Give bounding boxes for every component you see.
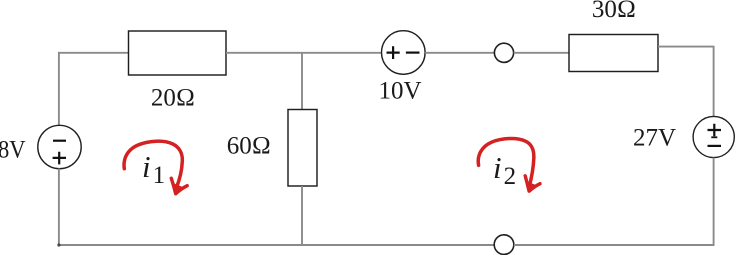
svg-text:8V: 8V: [0, 137, 26, 164]
resistor R3 30Ω body: [569, 35, 658, 72]
voltage source V2 10V circle: [382, 31, 426, 75]
wire: left rail upper vertical (top corner down to 8V source): [58, 52, 60, 126]
wire: 60Ω branch upper vertical: [301, 53, 303, 110]
svg-text:27V: 27V: [633, 124, 676, 151]
svg-text:20Ω: 20Ω: [151, 85, 195, 112]
V1 plus sign (bottom terminal): [53, 152, 66, 165]
junction dot bottom-left corner: [57, 243, 60, 246]
wire: top horizontal from 20Ω to 10V source (through node at 60Ω tap): [226, 52, 382, 54]
mesh current arrow i1 (red, clockwise arc): [124, 141, 187, 194]
svg-text:60Ω: 60Ω: [227, 132, 271, 159]
wire: bottom rail right segment: [514, 244, 715, 246]
wire: from 30Ω right side to top-right corner: [658, 46, 714, 48]
wire: right rail upper vertical down to 27V source: [713, 46, 715, 117]
V2 minus sign (right terminal): [406, 51, 420, 53]
V3 plus sign (top terminal): [708, 124, 722, 136]
wire: top horizontal from top terminal to 30Ω: [514, 52, 569, 54]
wire: right rail lower vertical from 27V to bottom rail: [713, 158, 715, 246]
svg-text:i1: i1: [142, 149, 165, 189]
V2 plus sign (left terminal): [387, 46, 400, 59]
voltage source V3 27V circle: [693, 116, 734, 157]
mesh current arrow i2 (red, clockwise arc): [478, 138, 540, 191]
terminal node (bottom, open circle): [494, 235, 514, 255]
wire: left rail lower vertical (8V source down to bottom rail): [58, 169, 60, 246]
svg-text:i2: i2: [493, 150, 516, 190]
resistor R1 20Ω body: [129, 31, 227, 75]
V1 minus sign (top terminal): [53, 140, 66, 142]
V3 minus sign (bottom terminal): [708, 145, 722, 147]
wire: top-left horizontal from left rail to 20Ω resistor: [59, 52, 129, 54]
resistor R2 60Ω body: [288, 110, 317, 187]
wire: top horizontal from 10V source to top terminal: [425, 52, 494, 54]
wire: bottom rail left segment: [59, 244, 494, 246]
V3 middle tick: [711, 136, 717, 138]
voltage source V1 8V circle: [38, 125, 81, 168]
terminal node (top, open circle): [494, 43, 513, 62]
svg-text:10V: 10V: [378, 77, 421, 104]
svg-text:30Ω: 30Ω: [592, 0, 636, 23]
wire: 60Ω branch lower vertical to bottom rail: [301, 186, 303, 246]
